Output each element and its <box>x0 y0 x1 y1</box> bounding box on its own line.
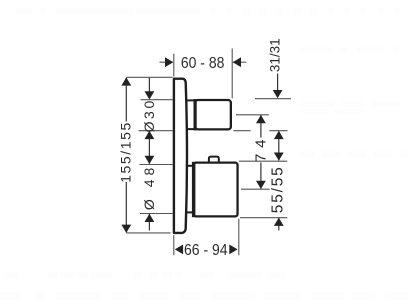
svg-text:66 - 94: 66 - 94 <box>184 242 228 259</box>
svg-text:31/31: 31/31 <box>267 38 282 72</box>
svg-text:7 4: 7 4 <box>252 139 269 162</box>
svg-text:155/155: 155/155 <box>118 121 134 183</box>
svg-text:60 - 88: 60 - 88 <box>181 55 225 72</box>
svg-text:55/55: 55/55 <box>269 165 286 213</box>
svg-text:Ø 48: Ø 48 <box>141 164 157 210</box>
svg-text:Ø30: Ø30 <box>141 98 157 132</box>
